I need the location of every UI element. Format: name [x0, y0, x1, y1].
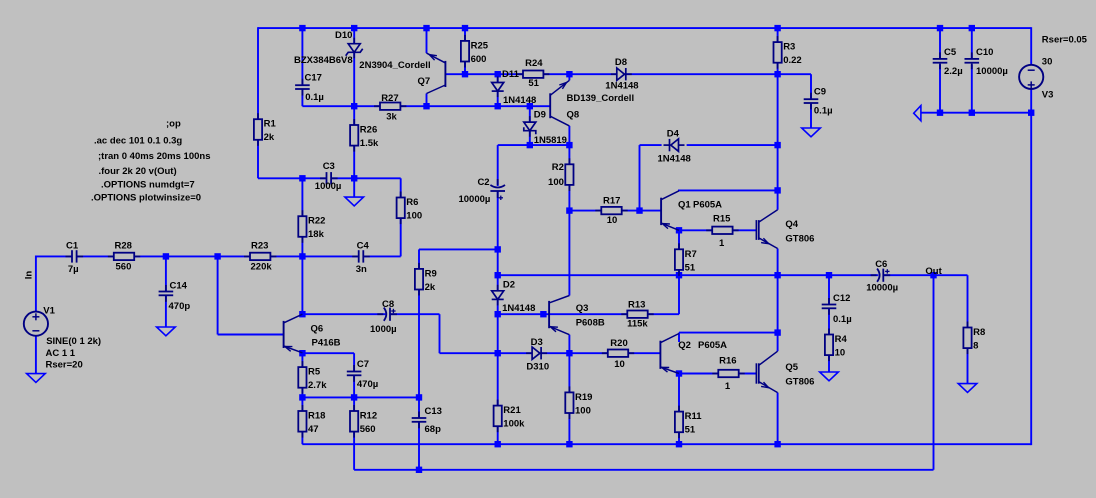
wire Q2 collector stub — [678, 333, 680, 342]
wire C10 bottom lead — [971, 65, 973, 113]
svg-text:3k: 3k — [386, 111, 397, 122]
wire C7 bottom lead — [353, 375, 355, 398]
wire R21 bottom — [497, 426, 499, 444]
junction — [969, 25, 975, 31]
svg-text:0.1µ: 0.1µ — [833, 314, 852, 325]
wire D4 branch down to R17 row — [639, 145, 641, 211]
svg-text:R20: R20 — [610, 338, 627, 349]
wire R22 bottom through R23 row to Q6 collector — [301, 237, 303, 314]
resistor R23 — [244, 253, 276, 260]
junction — [566, 207, 572, 213]
svg-text:47: 47 — [308, 424, 319, 435]
resistor R18 — [298, 405, 306, 438]
wire Q7 base / R24 / D8 row — [445, 73, 777, 75]
ground (V1) — [27, 374, 46, 383]
junction — [774, 25, 780, 31]
wire D11 bottom lead — [497, 92, 499, 107]
svg-text:10000µ: 10000µ — [976, 66, 1008, 77]
svg-text:P605A: P605A — [693, 200, 722, 211]
junction — [423, 25, 429, 31]
svg-text:51: 51 — [685, 262, 696, 273]
svg-text:C6: C6 — [875, 259, 887, 270]
wire C14 to ground — [165, 295, 167, 327]
svg-text:D9: D9 — [534, 109, 546, 120]
wire C9 top lead — [810, 74, 812, 99]
svg-text:C17: C17 — [305, 73, 322, 84]
wire D4 right — [687, 144, 778, 146]
junction — [1028, 110, 1034, 116]
wire R9 top lead — [418, 249, 420, 269]
node In label — [23, 271, 34, 280]
wire C6 to Out node — [883, 274, 933, 276]
junction — [774, 187, 780, 193]
svg-text:7µ: 7µ — [68, 264, 79, 275]
svg-text:1: 1 — [719, 238, 725, 249]
resistor R20 — [602, 350, 634, 357]
ground (R8) — [958, 384, 977, 393]
resistor R11 — [675, 406, 683, 439]
wire R2 bottom lead — [568, 185, 570, 211]
svg-text:BD139_Cordell: BD139_Cordell — [567, 93, 635, 104]
wire R12 top lead — [353, 397, 355, 411]
wire bottom bus 1 (V- rail) — [302, 443, 1031, 445]
wire V1 top — [35, 256, 37, 312]
resistor R2 — [565, 158, 573, 191]
wire R25 top lead — [464, 28, 466, 41]
wire C3 junction to ground — [353, 178, 355, 197]
svg-text:.OPTIONS numdgt=7: .OPTIONS numdgt=7 — [101, 180, 195, 191]
wire C13 top lead — [418, 397, 420, 418]
junction — [495, 441, 501, 447]
wire R1 bottom — [257, 140, 259, 178]
junction — [566, 441, 572, 447]
wire R26 top lead — [353, 106, 355, 125]
wire Q5 collector stub — [777, 333, 779, 352]
junction — [299, 394, 305, 400]
svg-text:D4: D4 — [667, 128, 680, 139]
capacitor C8 (polarized) — [377, 308, 397, 321]
wire C7 top lead — [353, 353, 355, 371]
capacitor C4 — [352, 250, 370, 262]
wire Q4 collector stub — [777, 190, 779, 209]
wire C12 to R4 — [828, 308, 830, 334]
wire R9 bottom (crosses C8 and D3 rows) — [418, 290, 420, 398]
wire Q1 collector row — [678, 189, 778, 191]
wire R4 to ground — [828, 355, 830, 372]
resistor R26 — [350, 119, 358, 152]
svg-text:220k: 220k — [251, 262, 273, 273]
wire Q1 emitter / R15 / Q4 base row — [679, 229, 756, 231]
svg-text:R15: R15 — [713, 214, 731, 225]
wire R12 bottom to bottom bus 2 — [353, 432, 355, 470]
transistor Q5 — [756, 351, 777, 392]
junction — [351, 103, 357, 109]
ground (C14) — [157, 327, 176, 336]
junction — [774, 441, 780, 447]
transistor Q1 — [661, 191, 679, 231]
svg-text:R22: R22 — [308, 216, 325, 227]
ground (R4) — [820, 372, 839, 381]
wire Q2 emitter / R16 / Q5 base row — [679, 373, 756, 375]
svg-text:2k: 2k — [425, 282, 436, 293]
svg-text:R27: R27 — [381, 93, 398, 104]
svg-text:R5: R5 — [308, 367, 321, 378]
junction — [299, 350, 305, 356]
transistor Q3 — [549, 296, 569, 335]
wire R3 bottom lead — [777, 63, 779, 74]
svg-text:8: 8 — [973, 341, 978, 352]
wire R22 top lead — [301, 178, 303, 216]
junction — [774, 71, 780, 77]
svg-text:D2: D2 — [503, 279, 515, 290]
wire D3/R20 row to Q2 base — [440, 352, 661, 354]
transistor Q6 — [284, 314, 303, 353]
svg-text:1N4148: 1N4148 — [502, 303, 535, 314]
svg-text:C14: C14 — [170, 281, 188, 292]
wire Q7 emitter up — [426, 28, 428, 53]
transistor Q8 — [550, 80, 569, 126]
svg-text:100: 100 — [548, 177, 564, 188]
junction — [826, 272, 832, 278]
svg-text:D310: D310 — [526, 361, 549, 372]
wire C13 bottom to bus 2 — [418, 422, 420, 470]
resistor R3 — [774, 36, 782, 69]
svg-text:2N3904_Cordell: 2N3904_Cordell — [359, 60, 430, 71]
svg-text:R8: R8 — [973, 327, 985, 338]
svg-text:560: 560 — [360, 424, 376, 435]
wire D4 left — [640, 144, 662, 146]
svg-text:115k: 115k — [627, 319, 648, 330]
svg-text:R17: R17 — [603, 196, 620, 207]
svg-text:R12: R12 — [360, 411, 377, 422]
wire D2 junction down to R21 — [497, 314, 499, 405]
svg-text:D11: D11 — [502, 69, 520, 80]
diode D8 — [611, 68, 632, 80]
ground (C9) — [802, 128, 821, 137]
resistor R19 — [565, 386, 573, 419]
svg-text:C8: C8 — [382, 299, 394, 310]
wire Out to R8 branch — [934, 274, 968, 276]
svg-text:1N4148: 1N4148 — [503, 95, 536, 106]
junction — [930, 272, 936, 278]
resistor R22 — [298, 210, 306, 243]
junction — [540, 311, 546, 317]
svg-text:R24: R24 — [525, 58, 543, 69]
svg-text:10: 10 — [835, 348, 846, 359]
V- rail arrow marker — [914, 106, 921, 121]
wire R8 top lead — [967, 275, 969, 327]
wire V1 to ground — [35, 336, 37, 374]
junction — [774, 329, 780, 335]
svg-text:.ac dec 101 0.1 0.3g: .ac dec 101 0.1 0.3g — [94, 135, 182, 146]
svg-text:470µ: 470µ — [357, 379, 378, 390]
wire R11 top lead — [678, 374, 680, 412]
resistor R6 — [397, 192, 405, 225]
junction — [351, 394, 357, 400]
wire Q6 emitter to R5 — [301, 353, 303, 367]
svg-text:P608B: P608B — [576, 318, 605, 329]
resistor R15 — [706, 227, 738, 234]
junction — [495, 246, 501, 252]
wire R6 bottom to C4 row — [400, 218, 402, 257]
junction — [566, 71, 572, 77]
wire C4 right — [363, 255, 401, 257]
svg-text:68p: 68p — [425, 424, 442, 435]
svg-text:1000µ: 1000µ — [370, 324, 397, 335]
wire C5 top lead — [939, 28, 941, 59]
transistor Q7 — [427, 53, 446, 93]
svg-text:R7: R7 — [685, 249, 697, 260]
capacitor C3 — [320, 172, 338, 184]
resistor R9 — [415, 263, 423, 296]
svg-text:1.5k: 1.5k — [360, 138, 379, 149]
junction — [214, 253, 220, 259]
junction — [163, 253, 169, 259]
junction — [495, 71, 501, 77]
wire R7 top lead — [678, 230, 680, 249]
wire R9 row to C2 column — [419, 248, 498, 250]
svg-text:600: 600 — [471, 54, 487, 65]
svg-text:D3: D3 — [531, 337, 543, 348]
svg-text:Q1: Q1 — [678, 200, 691, 211]
junction — [774, 272, 780, 278]
wire C17 bottom lead — [301, 89, 303, 106]
svg-text:Q3: Q3 — [576, 303, 589, 314]
wire In node to C1 — [36, 255, 72, 257]
wire Q3 base / R13 row — [498, 313, 679, 315]
svg-text:Q8: Q8 — [567, 109, 580, 120]
svg-text:C10: C10 — [976, 47, 993, 58]
resistor R4 — [825, 329, 833, 362]
svg-text:R4: R4 — [835, 334, 848, 345]
svg-text:18k: 18k — [308, 229, 325, 240]
svg-text:R18: R18 — [308, 411, 325, 422]
wire C3 row left — [258, 177, 326, 179]
svg-text:C3: C3 — [323, 161, 335, 172]
svg-text:R21: R21 — [503, 405, 521, 416]
capacitor C14 — [159, 285, 174, 302]
wire D11 top lead — [497, 74, 499, 82]
svg-text:GT806: GT806 — [785, 377, 814, 388]
junction — [774, 142, 780, 148]
wire R19 bottom — [568, 413, 570, 444]
wire D9 top lead — [529, 106, 531, 122]
svg-text:GT806: GT806 — [785, 233, 814, 244]
svg-text:Q4: Q4 — [785, 219, 798, 230]
junction — [416, 467, 422, 473]
wire C9 to ground — [810, 103, 812, 128]
junction — [527, 142, 533, 148]
wire Q3 emitter down — [568, 335, 570, 354]
junction — [676, 227, 682, 233]
junction — [969, 110, 975, 116]
wire R17 row / Q1 base — [569, 210, 661, 212]
wire V- top rail — [921, 112, 1031, 114]
svg-text:560: 560 — [116, 262, 132, 273]
svg-text:C12: C12 — [833, 293, 850, 304]
junction — [566, 142, 572, 148]
svg-text:R2: R2 — [552, 162, 564, 173]
wire C14 top lead — [165, 256, 167, 291]
resistor R7 — [675, 243, 683, 276]
junction — [299, 311, 305, 317]
junction — [351, 175, 357, 181]
svg-text:Q7: Q7 — [418, 76, 431, 87]
junction — [299, 175, 305, 181]
wire R5 to R18 — [301, 388, 303, 411]
capacitor C13 — [412, 412, 427, 429]
wire C3 row right — [331, 177, 400, 179]
wire C2 bottom through R9 row junction — [497, 192, 499, 276]
wire Q6 base — [218, 334, 284, 336]
junction — [937, 25, 943, 31]
wire Q7 collector down — [426, 94, 428, 107]
wire R6 top lead — [400, 178, 402, 197]
wire C2 top lead — [497, 145, 499, 186]
svg-text:R23: R23 — [251, 241, 268, 252]
svg-text:2k: 2k — [264, 132, 275, 143]
junction — [299, 25, 305, 31]
capacitor C5 — [933, 52, 948, 69]
svg-text:C7: C7 — [357, 359, 369, 370]
wire R8 to ground — [967, 348, 969, 384]
svg-text:100: 100 — [406, 211, 422, 222]
wire D9 bottom lead — [529, 131, 531, 145]
junction — [937, 110, 943, 116]
junction — [495, 350, 501, 356]
svg-text:D10: D10 — [335, 30, 352, 41]
svg-text:;tran 0 40ms 20ms 100ns: ;tran 0 40ms 20ms 100ns — [98, 151, 210, 162]
wire R5/C7/R18/R12/C13 junction row — [302, 396, 419, 398]
svg-text:C13: C13 — [425, 406, 442, 417]
svg-text:Rser=0.05: Rser=0.05 — [1042, 34, 1088, 45]
resistor R5 — [298, 361, 306, 394]
junction — [566, 350, 572, 356]
junction — [462, 25, 468, 31]
junction — [636, 207, 642, 213]
wire top V+ rail — [258, 27, 1031, 29]
svg-text:R1: R1 — [264, 119, 277, 130]
voltage source V3 — [1019, 65, 1043, 89]
wire right rail V3 minus down — [1030, 113, 1032, 445]
svg-text:R28: R28 — [115, 241, 132, 252]
resistor R27 — [374, 103, 406, 110]
wire R2 junction down to Q3 collector — [568, 211, 570, 296]
svg-text:10: 10 — [614, 359, 625, 370]
junction — [676, 272, 682, 278]
svg-text:V3: V3 — [1042, 90, 1054, 101]
svg-text:51: 51 — [685, 425, 696, 436]
svg-text:Out: Out — [925, 266, 942, 277]
wire R18 bottom — [301, 432, 303, 445]
svg-text:Q2: Q2 — [678, 340, 691, 351]
capacitor C2 (polarized) — [490, 179, 505, 200]
wire Q6 emitter to C7 — [302, 352, 354, 354]
svg-text:30: 30 — [1042, 56, 1053, 67]
resistor R8 — [963, 322, 971, 355]
junction — [416, 394, 422, 400]
wire Q8 collector down — [568, 126, 570, 145]
svg-text:R16: R16 — [719, 356, 736, 367]
svg-text:100: 100 — [575, 405, 591, 416]
svg-text:Q6: Q6 — [311, 323, 324, 334]
wire R3 top lead — [777, 28, 779, 42]
wire R26 bottom lead — [353, 146, 355, 179]
wire D2 bottom lead — [497, 300, 499, 314]
svg-text:2.2µ: 2.2µ — [944, 66, 963, 77]
svg-text:C9: C9 — [814, 87, 826, 98]
svg-text:100k: 100k — [503, 419, 525, 430]
junction — [495, 311, 501, 317]
svg-text:R19: R19 — [575, 392, 592, 403]
svg-text:D8: D8 — [615, 57, 627, 68]
wire C1 to C4 (through R28, R23) — [77, 255, 360, 257]
voltage source V1 — [24, 312, 48, 336]
svg-text:In: In — [23, 271, 34, 280]
wire C12 top lead — [828, 275, 830, 304]
diode D9 — [524, 116, 536, 137]
junction — [527, 103, 533, 109]
svg-text:P605A: P605A — [698, 340, 727, 351]
svg-text:2.7k: 2.7k — [308, 380, 327, 391]
capacitor C10 — [965, 52, 980, 69]
junction — [495, 103, 501, 109]
wire D2 top lead — [497, 275, 499, 291]
resistor R21 — [494, 400, 502, 433]
wire C8 to corner — [390, 313, 440, 315]
wire R7 bottom lead — [678, 270, 680, 275]
svg-text:C5: C5 — [944, 47, 957, 58]
resistor R13 — [621, 311, 653, 318]
svg-text:BZX384B6V8: BZX384B6V8 — [294, 55, 353, 66]
svg-text:1N5819: 1N5819 — [534, 135, 567, 146]
resistor R1 — [254, 113, 262, 146]
wire left rail down to R1 — [257, 27, 259, 119]
wire Q5 emitter down to bus 1 — [777, 393, 779, 445]
wire V3 top — [1030, 27, 1032, 64]
wire D10 cathode to R27 row — [353, 52, 355, 106]
junction — [495, 272, 501, 278]
resistor R28 — [108, 253, 140, 260]
diode D11 — [492, 77, 504, 98]
diode D2 — [492, 285, 504, 306]
svg-text:SINE(0 1 2k): SINE(0 1 2k) — [46, 336, 101, 347]
diode D4 — [664, 139, 685, 151]
wire to C9 branch — [778, 73, 811, 75]
junction — [351, 25, 357, 31]
wire Q2 collector row — [679, 332, 778, 334]
wire C5 bottom lead — [939, 65, 941, 113]
junction — [462, 71, 468, 77]
resistor R16 — [712, 370, 744, 377]
svg-text:AC 1 1: AC 1 1 — [46, 348, 76, 359]
svg-text:Rser=20: Rser=20 — [46, 360, 83, 371]
wire C8 corner down — [439, 314, 441, 353]
svg-text:R6: R6 — [406, 197, 418, 208]
svg-text:0.1µ: 0.1µ — [814, 105, 833, 116]
wire R11 bottom — [678, 432, 680, 444]
wire D3 junction to R19 — [568, 353, 570, 392]
wire C2 top row — [498, 144, 570, 146]
svg-text:.OPTIONS plotwinsize=0: .OPTIONS plotwinsize=0 — [91, 192, 201, 203]
wire R2 top lead — [568, 145, 570, 164]
svg-text:51: 51 — [528, 78, 539, 89]
diode D10 — [346, 38, 363, 59]
svg-text:.four 2k 20 v(Out): .four 2k 20 v(Out) — [99, 166, 177, 177]
capacitor C1 — [66, 250, 84, 262]
wire mid output row to C6 — [498, 274, 879, 276]
wire R27 row / Q8 base row — [302, 105, 550, 107]
